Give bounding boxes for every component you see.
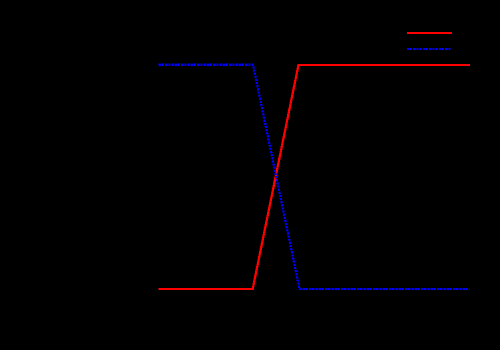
red solid curve (rising sigmoid/clipped ramp) <box>159 65 470 289</box>
legend blue dotted line sample <box>407 48 452 50</box>
legend red solid line sample <box>407 32 452 34</box>
blue dotted curve (falling sigmoid/clipped ramp) <box>159 65 470 289</box>
